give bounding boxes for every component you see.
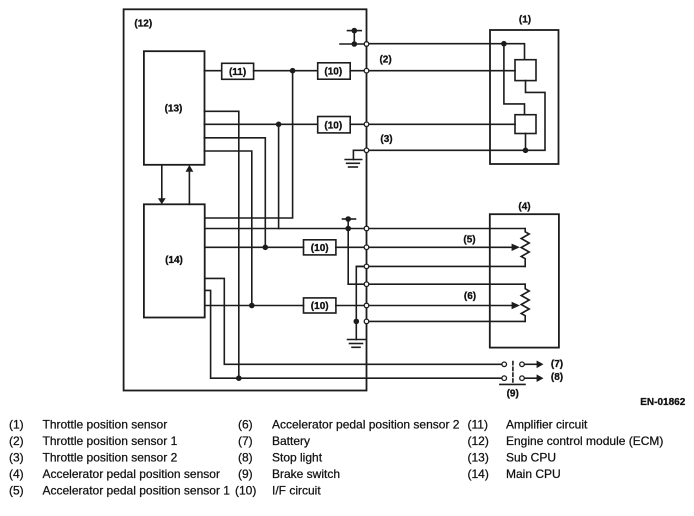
svg-text:Accelerator pedal position sen: Accelerator pedal position sensor 1 [43,483,231,497]
svg-text:Throttle position sensor 1: Throttle position sensor 1 [43,434,178,448]
svg-text:(9): (9) [507,388,519,399]
svg-text:(10): (10) [324,120,342,131]
svg-text:(5): (5) [463,235,475,246]
svg-text:(7): (7) [238,434,253,448]
svg-text:Engine control module (ECM): Engine control module (ECM) [506,434,663,448]
svg-text:(7): (7) [551,359,563,370]
svg-text:(4): (4) [9,467,24,481]
svg-text:(11): (11) [468,417,488,431]
svg-text:(3): (3) [380,134,392,145]
svg-text:Throttle position sensor: Throttle position sensor [43,417,168,431]
svg-text:I/F circuit: I/F circuit [272,483,321,497]
svg-text:Throttle position sensor 2: Throttle position sensor 2 [43,450,178,464]
svg-text:(10): (10) [311,301,329,312]
svg-text:(8): (8) [551,372,563,383]
svg-text:(13): (13) [468,450,489,464]
svg-text:Amplifier circuit: Amplifier circuit [506,417,588,431]
svg-text:(1): (1) [519,14,531,25]
svg-text:(14): (14) [165,255,183,266]
svg-text:(12): (12) [468,434,489,448]
svg-text:Sub CPU: Sub CPU [506,450,556,464]
svg-text:(1): (1) [9,417,24,431]
svg-text:Brake switch: Brake switch [272,467,340,481]
svg-text:(11): (11) [229,67,246,78]
svg-text:Main CPU: Main CPU [506,467,561,481]
svg-text:Stop light: Stop light [272,450,323,464]
svg-text:(10): (10) [324,67,342,78]
svg-text:EN-01862: EN-01862 [640,397,685,408]
svg-text:(6): (6) [464,291,476,302]
svg-text:(12): (12) [134,18,152,29]
svg-text:(10): (10) [235,483,256,497]
svg-text:(4): (4) [518,202,530,213]
svg-text:(14): (14) [468,467,489,481]
svg-text:(3): (3) [9,450,24,464]
svg-text:Battery: Battery [272,434,310,448]
svg-text:(6): (6) [238,417,253,431]
svg-text:(2): (2) [9,434,24,448]
svg-text:(5): (5) [9,483,24,497]
svg-text:(13): (13) [165,103,183,114]
svg-text:(10): (10) [311,243,329,254]
svg-text:(8): (8) [238,450,253,464]
svg-text:Accelerator pedal position sen: Accelerator pedal position sensor 2 [272,417,460,431]
svg-text:(2): (2) [379,54,391,65]
svg-text:Accelerator pedal position sen: Accelerator pedal position sensor [43,467,220,481]
svg-text:(9): (9) [238,467,253,481]
